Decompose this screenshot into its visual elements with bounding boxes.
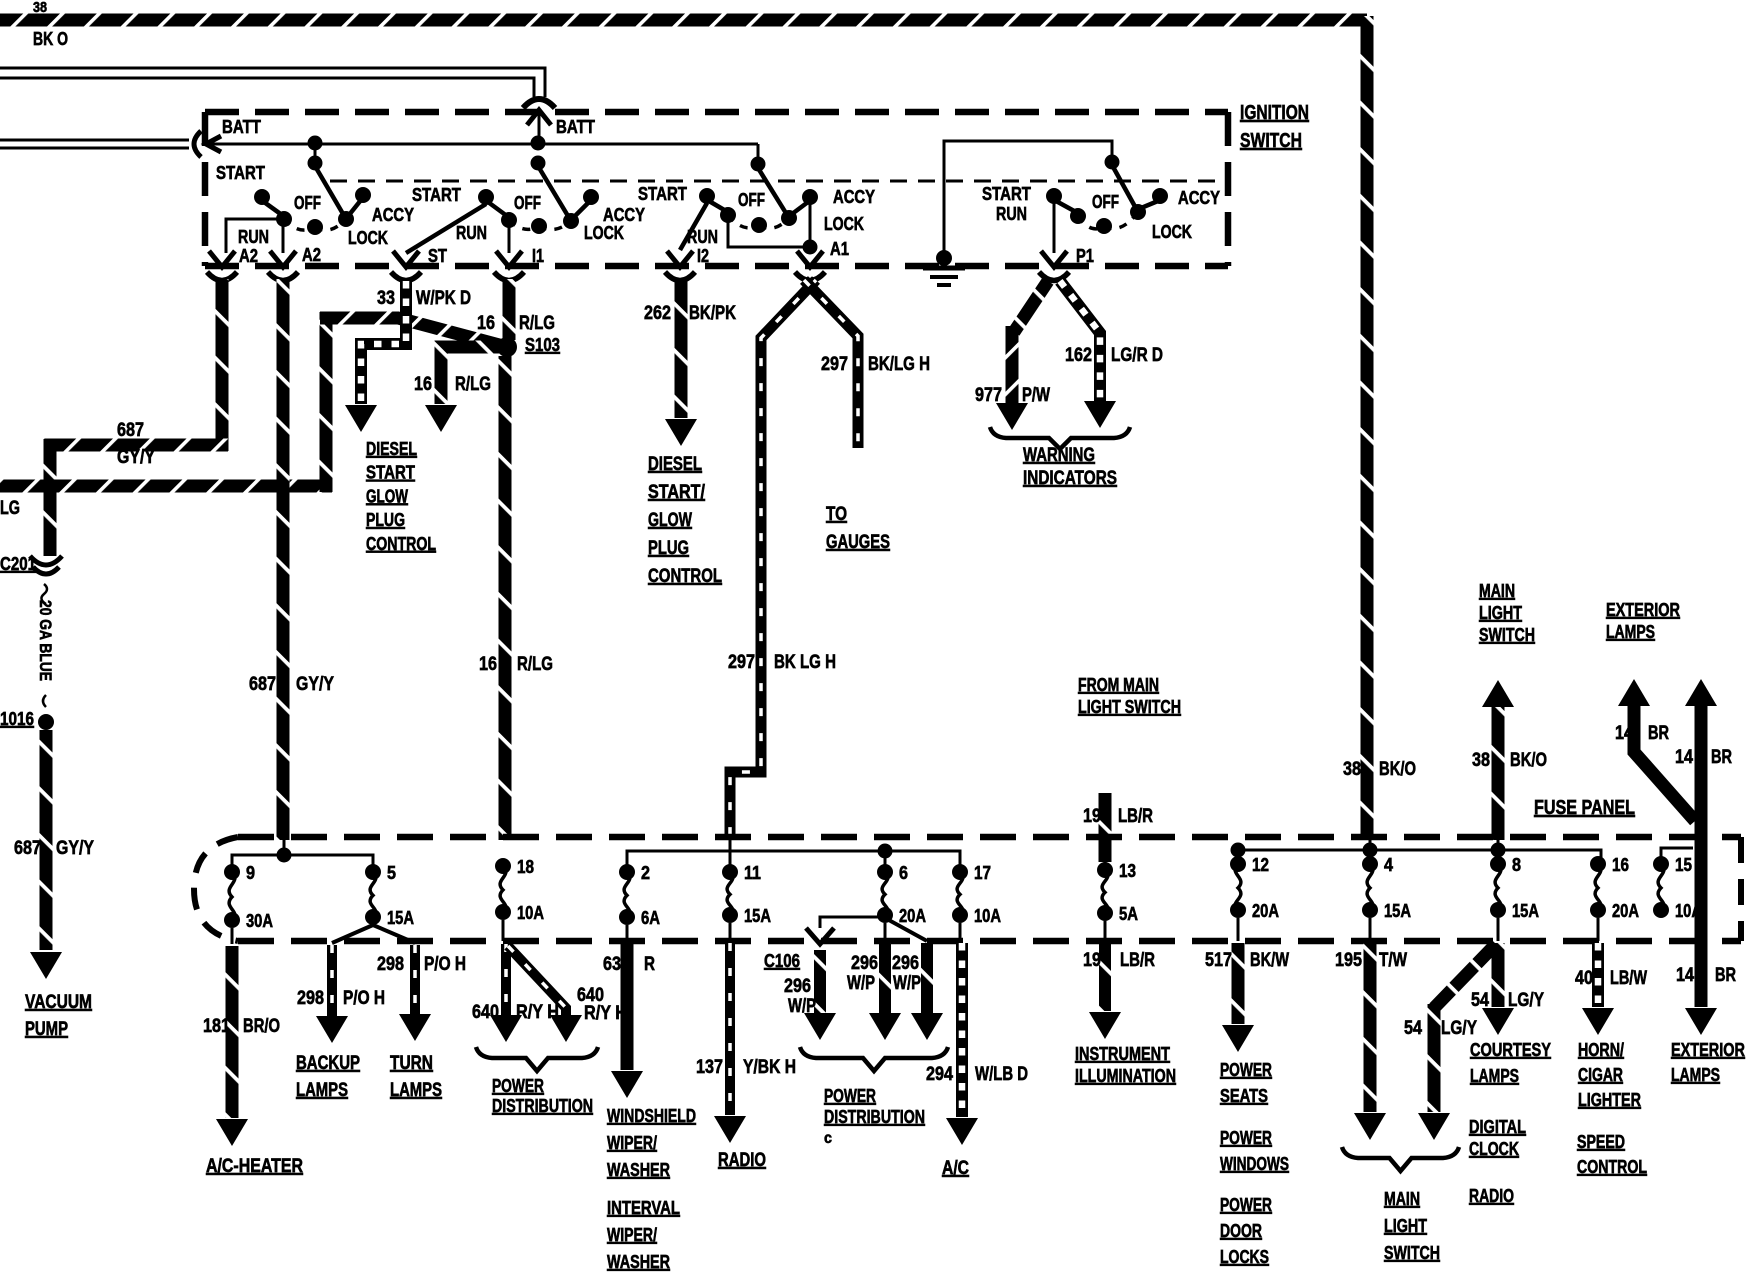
svg-text:137: 137 (696, 1057, 723, 1078)
svg-text:CONTROL: CONTROL (648, 566, 722, 587)
svg-text:GY/Y: GY/Y (56, 838, 94, 859)
svg-text:INDICATORS: INDICATORS (1023, 468, 1117, 489)
svg-text:262: 262 (644, 303, 671, 324)
svg-text:W/LB D: W/LB D (975, 1064, 1028, 1085)
svg-text:11: 11 (744, 863, 761, 883)
svg-text:T/W: T/W (1379, 950, 1407, 971)
svg-text:2: 2 (641, 863, 650, 883)
svg-text:POWER: POWER (824, 1086, 876, 1106)
svg-text:START: START (638, 184, 687, 204)
svg-text:16: 16 (479, 654, 497, 675)
svg-text:A/C-HEATER: A/C-HEATER (206, 1156, 303, 1177)
svg-text:ACCY: ACCY (1178, 188, 1220, 208)
svg-text:WASHER: WASHER (607, 1160, 670, 1180)
svg-text:DIESEL: DIESEL (366, 439, 417, 459)
svg-text:I2: I2 (697, 246, 709, 266)
svg-text:Y/BK H: Y/BK H (743, 1057, 796, 1078)
svg-text:LB/W: LB/W (1610, 968, 1647, 989)
svg-text:10A: 10A (1675, 901, 1702, 921)
svg-text:BR/O: BR/O (243, 1016, 280, 1037)
svg-text:CIGAR: CIGAR (1578, 1065, 1623, 1085)
svg-text:687: 687 (117, 420, 144, 441)
svg-text:1016: 1016 (0, 709, 34, 729)
svg-text:W/P: W/P (847, 973, 875, 994)
svg-text:10A: 10A (517, 903, 544, 923)
svg-text:BATT: BATT (556, 117, 595, 137)
svg-text:BK/PK: BK/PK (689, 303, 736, 324)
svg-text:38: 38 (33, 0, 47, 16)
svg-text:19: 19 (1083, 806, 1101, 827)
svg-text:POWER: POWER (1220, 1060, 1272, 1080)
svg-text:16: 16 (414, 374, 432, 395)
svg-text:15A: 15A (1512, 901, 1539, 921)
svg-text:LOCKS: LOCKS (1220, 1247, 1269, 1267)
svg-text:SWITCH: SWITCH (1384, 1243, 1440, 1263)
svg-text:S103: S103 (525, 335, 560, 355)
svg-text:20 GA BLUE: 20 GA BLUE (36, 600, 55, 681)
svg-text:P/O H: P/O H (424, 954, 466, 975)
svg-text:12: 12 (1252, 855, 1269, 875)
svg-text:OFF: OFF (514, 193, 541, 213)
svg-text:WINDOWS: WINDOWS (1220, 1154, 1289, 1174)
svg-text:W/PK D: W/PK D (416, 288, 471, 309)
svg-text:6A: 6A (641, 908, 660, 928)
svg-text:A/C: A/C (942, 1158, 969, 1179)
svg-text:10A: 10A (974, 906, 1001, 926)
svg-text:INSTRUMENT: INSTRUMENT (1075, 1044, 1170, 1064)
svg-text:START/: START/ (648, 482, 706, 503)
svg-text:LG/R D: LG/R D (1111, 345, 1163, 366)
svg-text:P/O H: P/O H (343, 988, 385, 1009)
svg-text:20A: 20A (899, 906, 926, 926)
svg-text:BR: BR (1648, 723, 1669, 744)
svg-text:A2: A2 (239, 246, 258, 266)
svg-text:687: 687 (14, 838, 41, 859)
svg-text:54: 54 (1471, 990, 1489, 1011)
svg-text:LG/Y: LG/Y (1508, 990, 1544, 1011)
svg-text:15: 15 (1675, 855, 1692, 875)
svg-text:9: 9 (246, 863, 255, 883)
svg-text:R/LG: R/LG (517, 654, 553, 675)
svg-text:977: 977 (975, 385, 1002, 406)
svg-text:BK/LG H: BK/LG H (868, 354, 930, 375)
svg-text:14: 14 (1615, 723, 1633, 744)
svg-text:PLUG: PLUG (648, 538, 689, 559)
svg-text:EXTERIOR: EXTERIOR (1606, 600, 1680, 620)
svg-text:14: 14 (1676, 965, 1694, 986)
svg-text:START: START (216, 163, 265, 183)
svg-text:SWITCH: SWITCH (1240, 130, 1302, 152)
svg-text:296: 296 (851, 953, 878, 974)
svg-text:296: 296 (784, 976, 811, 997)
svg-text:BACKUP: BACKUP (296, 1053, 360, 1074)
svg-text:RADIO: RADIO (1469, 1186, 1514, 1206)
svg-text:A1: A1 (830, 239, 849, 259)
svg-text:LG: LG (0, 498, 20, 519)
svg-text:8: 8 (1512, 855, 1521, 875)
svg-text:LIGHTER: LIGHTER (1578, 1090, 1641, 1110)
svg-text:517: 517 (1205, 950, 1232, 971)
svg-text:ST: ST (428, 246, 447, 266)
svg-text:RADIO: RADIO (718, 1150, 766, 1171)
svg-text:4: 4 (1384, 855, 1393, 875)
svg-text:DIESEL: DIESEL (648, 454, 702, 475)
svg-text:162: 162 (1065, 345, 1092, 366)
svg-text:LIGHT: LIGHT (1384, 1216, 1427, 1236)
svg-text:14: 14 (1675, 747, 1693, 768)
svg-text:R: R (644, 954, 655, 975)
svg-text:LIGHT SWITCH: LIGHT SWITCH (1078, 697, 1181, 717)
svg-text:17: 17 (974, 863, 991, 883)
svg-text:MAIN: MAIN (1384, 1189, 1420, 1209)
svg-text:POWER: POWER (492, 1076, 544, 1096)
svg-text:16: 16 (1612, 855, 1629, 875)
svg-text:COURTESY: COURTESY (1470, 1040, 1551, 1060)
svg-text:EXTERIOR: EXTERIOR (1671, 1040, 1745, 1060)
svg-text:LOCK: LOCK (1152, 222, 1192, 242)
svg-text:BATT: BATT (222, 117, 261, 137)
svg-text:640: 640 (472, 1002, 499, 1023)
svg-text:LB/R: LB/R (1120, 950, 1155, 971)
svg-text:VACUUM: VACUUM (25, 992, 92, 1013)
svg-text:40: 40 (1575, 968, 1593, 989)
svg-text:15A: 15A (1384, 901, 1411, 921)
svg-text:TO: TO (826, 504, 847, 525)
svg-text:GAUGES: GAUGES (826, 532, 890, 553)
svg-text:18: 18 (517, 857, 534, 877)
svg-text:54: 54 (1404, 1018, 1422, 1039)
svg-text:63: 63 (603, 954, 621, 975)
svg-text:C201: C201 (0, 554, 36, 574)
svg-text:PUMP: PUMP (25, 1019, 68, 1040)
svg-text:IGNITION: IGNITION (1240, 102, 1309, 124)
svg-text:13: 13 (1119, 861, 1136, 881)
svg-text:LG/Y: LG/Y (1441, 1018, 1477, 1039)
svg-text:P1: P1 (1076, 246, 1094, 266)
svg-text:TURN: TURN (390, 1053, 433, 1074)
svg-text:16: 16 (477, 313, 495, 334)
svg-text:ILLUMINATION: ILLUMINATION (1075, 1066, 1176, 1086)
svg-text:19: 19 (1083, 950, 1101, 971)
svg-text:LAMPS: LAMPS (390, 1080, 442, 1101)
svg-text:LAMPS: LAMPS (1470, 1066, 1519, 1086)
svg-text:BR: BR (1711, 747, 1732, 768)
svg-text:ACCY: ACCY (603, 205, 645, 225)
svg-text:SEATS: SEATS (1220, 1086, 1268, 1106)
svg-text:BK O: BK O (33, 29, 68, 49)
svg-text:POWER: POWER (1220, 1128, 1272, 1148)
svg-text:RUN: RUN (456, 223, 487, 243)
svg-text:LIGHT: LIGHT (1479, 603, 1522, 623)
svg-text:LOCK: LOCK (584, 223, 624, 243)
svg-text:GLOW: GLOW (648, 510, 692, 531)
svg-text:294: 294 (926, 1064, 953, 1085)
svg-text:DISTRIBUTION: DISTRIBUTION (492, 1096, 593, 1116)
svg-text:MAIN: MAIN (1479, 581, 1515, 601)
svg-text:WARNING: WARNING (1023, 445, 1095, 466)
svg-text:298: 298 (377, 954, 404, 975)
svg-text:LOCK: LOCK (348, 228, 388, 248)
svg-text:DISTRIBUTION: DISTRIBUTION (824, 1107, 925, 1127)
svg-text:DIGITAL: DIGITAL (1469, 1117, 1526, 1137)
svg-text:SWITCH: SWITCH (1479, 625, 1535, 645)
svg-text:INTERVAL: INTERVAL (607, 1198, 680, 1218)
svg-text:WINDSHIELD: WINDSHIELD (607, 1106, 696, 1126)
svg-text:687: 687 (249, 674, 276, 695)
svg-text:ACCY: ACCY (372, 205, 414, 225)
svg-text:LAMPS: LAMPS (1606, 622, 1655, 642)
svg-text:START: START (366, 463, 415, 483)
svg-text:LB/R: LB/R (1118, 806, 1153, 827)
svg-text:START: START (982, 184, 1031, 204)
svg-text:BR: BR (1715, 965, 1736, 986)
svg-text:R/LG: R/LG (455, 374, 491, 395)
svg-text:20A: 20A (1612, 901, 1639, 921)
svg-text:OFF: OFF (738, 190, 765, 210)
svg-text:R/LG: R/LG (519, 313, 555, 334)
svg-text:START: START (412, 185, 461, 205)
svg-text:181: 181 (203, 1016, 230, 1037)
svg-text:GY/Y: GY/Y (296, 674, 334, 695)
svg-text:GLOW: GLOW (366, 486, 408, 506)
svg-text:WASHER: WASHER (607, 1252, 670, 1272)
svg-text:FUSE PANEL: FUSE PANEL (1534, 797, 1635, 819)
svg-text:5: 5 (387, 863, 396, 883)
svg-text:RUN: RUN (238, 227, 269, 247)
svg-text:WIPER/: WIPER/ (607, 1133, 657, 1153)
svg-text:c: c (824, 1130, 832, 1147)
svg-text:POWER: POWER (1220, 1195, 1272, 1215)
svg-text:CONTROL: CONTROL (1577, 1157, 1647, 1177)
svg-text:5A: 5A (1119, 904, 1138, 924)
svg-text:OFF: OFF (294, 193, 321, 213)
svg-text:W/P: W/P (788, 996, 816, 1017)
svg-text:ACCY: ACCY (833, 187, 875, 207)
svg-text:195: 195 (1335, 950, 1362, 971)
svg-text:HORN/: HORN/ (1578, 1040, 1624, 1060)
svg-text:15A: 15A (387, 908, 414, 928)
svg-text:15A: 15A (744, 906, 771, 926)
svg-text:GY/Y: GY/Y (117, 447, 155, 468)
svg-text:BK/O: BK/O (1379, 759, 1416, 780)
svg-text:297: 297 (728, 652, 755, 673)
svg-text:WIPER/: WIPER/ (607, 1225, 657, 1245)
svg-text:FROM MAIN: FROM MAIN (1078, 675, 1159, 695)
svg-text:38: 38 (1343, 759, 1361, 780)
svg-text:297: 297 (821, 354, 848, 375)
svg-text:296: 296 (892, 953, 919, 974)
svg-text:LAMPS: LAMPS (1671, 1065, 1720, 1085)
svg-text:30A: 30A (246, 911, 273, 931)
svg-text:298: 298 (297, 988, 324, 1009)
svg-text:A2: A2 (302, 245, 321, 265)
svg-text:6: 6 (899, 863, 908, 883)
svg-text:33: 33 (377, 288, 395, 309)
svg-text:LAMPS: LAMPS (296, 1080, 348, 1101)
svg-text:BK LG H: BK LG H (774, 652, 836, 673)
svg-text:BK/O: BK/O (1510, 750, 1547, 771)
svg-text:CLOCK: CLOCK (1469, 1139, 1519, 1159)
svg-text:C106: C106 (764, 951, 800, 971)
svg-text:OFF: OFF (1092, 192, 1119, 212)
svg-text:PLUG: PLUG (366, 510, 405, 530)
svg-text:CONTROL: CONTROL (366, 534, 436, 554)
svg-text:RUN: RUN (996, 204, 1027, 224)
svg-text:38: 38 (1472, 750, 1490, 771)
svg-text:DOOR: DOOR (1220, 1221, 1262, 1241)
svg-text:P/W: P/W (1022, 385, 1050, 406)
svg-text:20A: 20A (1252, 901, 1279, 921)
svg-text:LOCK: LOCK (824, 214, 864, 234)
svg-text:I1: I1 (532, 246, 544, 266)
svg-text:SPEED: SPEED (1577, 1132, 1625, 1152)
svg-text:W/P: W/P (893, 973, 921, 994)
svg-text:BK/W: BK/W (1250, 950, 1289, 971)
svg-text:R/Y H: R/Y H (516, 1002, 559, 1023)
